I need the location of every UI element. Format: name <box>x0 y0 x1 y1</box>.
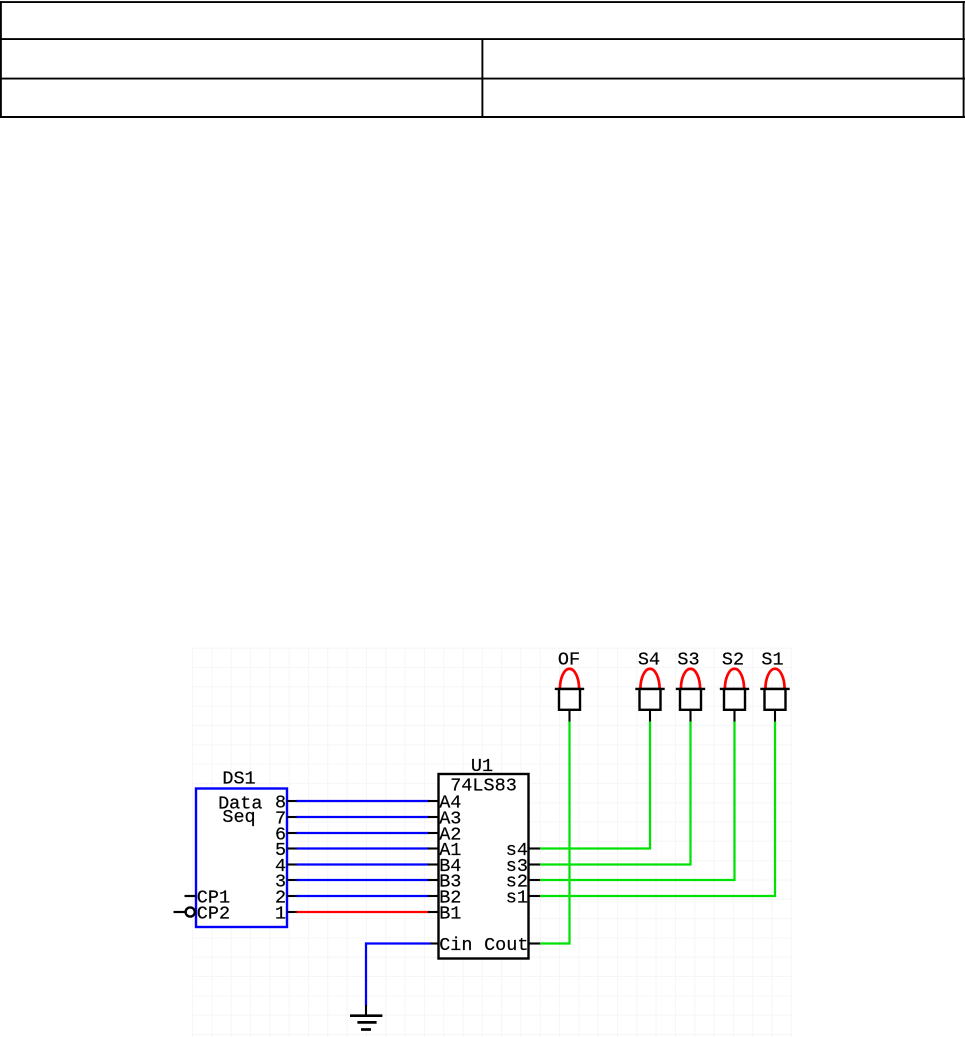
wire U1.s4 to LED S4 <box>529 721 651 849</box>
wire DS1.4 to U1.B4 <box>287 863 439 865</box>
svg-text:OF: OF <box>558 649 580 670</box>
wire DS1.5 to U1.A1 <box>287 847 439 849</box>
schematic background grid <box>193 648 792 1037</box>
ground symbol <box>350 1016 382 1030</box>
wire DS1.7 to U1.A3 <box>287 816 439 818</box>
svg-text:CP2: CP2 <box>197 903 230 924</box>
svg-text:1: 1 <box>275 903 286 924</box>
LED S1 <box>760 649 789 721</box>
wire DS1.8 to U1.A4 <box>287 800 439 802</box>
svg-text:U1: U1 <box>471 756 493 777</box>
svg-text:Cout: Cout <box>484 935 528 956</box>
svg-text:S4: S4 <box>638 649 660 670</box>
wire DS1.3 to U1.B3 <box>287 879 439 881</box>
svg-text:DS1: DS1 <box>222 769 255 790</box>
LED OF <box>555 649 584 721</box>
svg-text:S3: S3 <box>677 649 699 670</box>
data sequencer DS1 box <box>196 769 287 928</box>
LED S4 <box>635 649 664 721</box>
IC U1 74LS83 box <box>439 756 529 959</box>
svg-text:Seq: Seq <box>222 807 255 828</box>
svg-text:s1: s1 <box>506 887 528 908</box>
wire DS1.1 to U1.B1 (red) <box>287 911 439 913</box>
wire DS1.6 to U1.A2 <box>287 832 439 834</box>
wire U1.Cout to LED OF <box>529 721 570 944</box>
wire U1.s2 to LED S2 <box>529 721 735 880</box>
LED S3 <box>676 649 705 721</box>
DS1 pin CP1 stub <box>185 895 197 897</box>
wire U1.s3 to LED S3 <box>529 721 691 865</box>
svg-text:S1: S1 <box>761 649 783 670</box>
DS1 pin CP2 stub with bubble <box>174 907 195 916</box>
svg-text:Cin: Cin <box>439 935 472 956</box>
title block table <box>0 1 965 118</box>
LED S2 <box>720 649 749 721</box>
svg-text:S2: S2 <box>722 649 744 670</box>
wire DS1.2 to U1.B2 <box>287 895 439 897</box>
wire U1.Cin to ground (blue) <box>366 944 439 1016</box>
svg-text:B1: B1 <box>439 903 461 924</box>
wire U1.s1 to LED S1 <box>529 721 776 896</box>
